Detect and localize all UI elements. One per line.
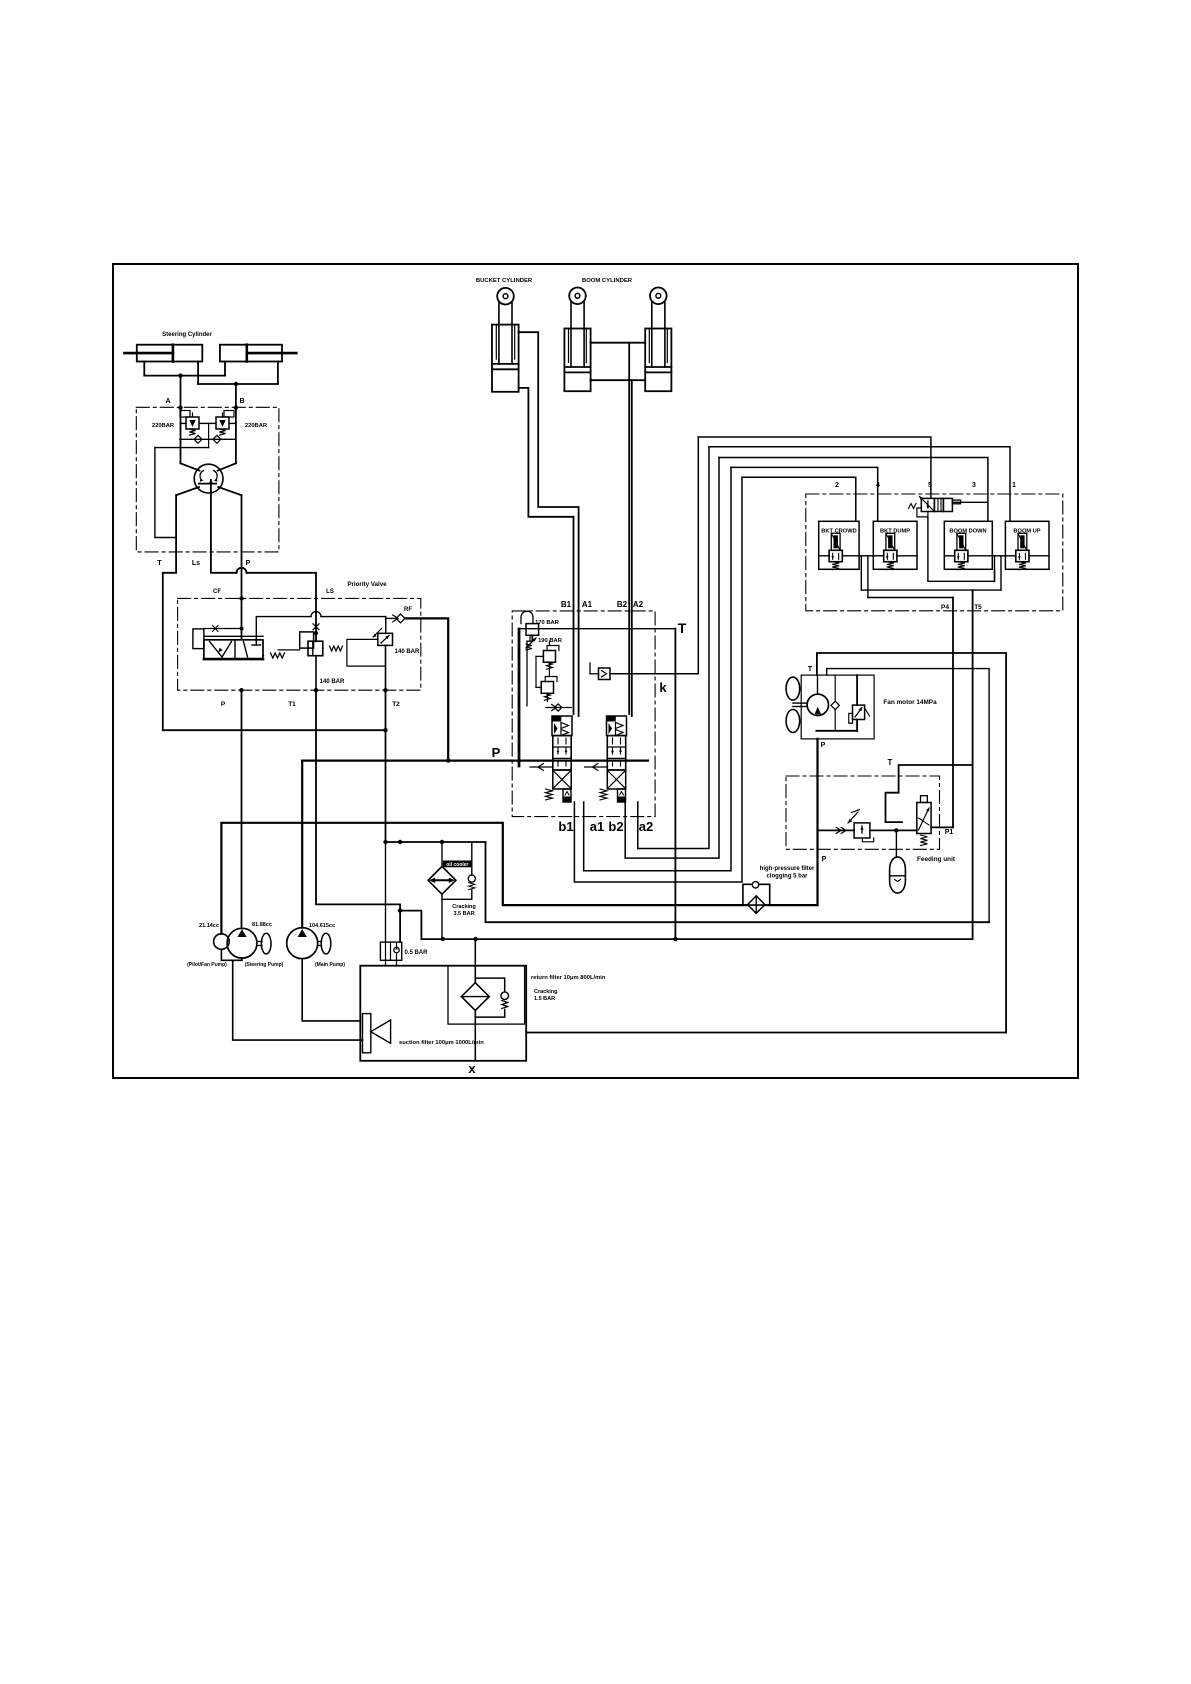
svg-text:a1: a1 — [590, 819, 604, 834]
label 190 BAR — [538, 638, 563, 644]
label cracking 3.5 — [452, 904, 476, 917]
svg-text:0.5 BAR: 0.5 BAR — [404, 950, 428, 956]
wire RF output — [405, 618, 448, 760]
priority valve spool body — [204, 636, 263, 659]
svg-text:Cracking: Cracking — [534, 989, 558, 995]
boom manifold base-side — [591, 379, 646, 381]
bucket cylinder body — [492, 325, 519, 392]
pressure reducing valve 5 — [909, 496, 961, 512]
priority pilot line — [204, 626, 244, 632]
hydraulic tank — [360, 966, 526, 1061]
svg-text:B: B — [239, 398, 244, 405]
wire pilot a1 — [584, 467, 731, 870]
cooler bypass check — [468, 842, 475, 899]
port label B2 — [617, 600, 628, 609]
wire cooler in — [441, 842, 443, 866]
port label Ls — [192, 560, 200, 567]
valve T gallery — [519, 628, 675, 630]
svg-text:b2: b2 — [608, 819, 623, 834]
svg-text:B2: B2 — [617, 600, 628, 609]
label CF — [213, 589, 221, 595]
port label P fan — [821, 742, 826, 749]
wire pump suction shared — [221, 949, 362, 1040]
junction dot accumulator — [894, 828, 898, 832]
junction dot T1 bottom — [314, 688, 318, 692]
fan motor circle — [807, 694, 828, 715]
boom cylinder left body — [564, 329, 590, 392]
wire T2 inside — [385, 645, 387, 690]
svg-text:a2: a2 — [639, 819, 653, 834]
high pressure filter — [743, 882, 770, 914]
junction dot collector b — [440, 840, 444, 844]
label return filter — [531, 975, 606, 981]
svg-text:1.5 BAR: 1.5 BAR — [534, 996, 555, 1002]
svg-text:190 BAR: 190 BAR — [538, 638, 563, 644]
boom cylinder left piston — [564, 367, 590, 372]
svg-text:T: T — [678, 620, 687, 636]
svg-text:81.88cc: 81.88cc — [252, 922, 272, 928]
junction dot rail tank — [473, 937, 477, 941]
node B label — [239, 398, 244, 405]
svg-text:220BAR: 220BAR — [152, 423, 175, 429]
label T main — [678, 620, 687, 636]
solenoid valve BKT DUMP — [873, 521, 917, 569]
main spool 1 (bucket) — [530, 716, 572, 802]
wire tank return right — [526, 1032, 1006, 1034]
svg-text:Cracking: Cracking — [452, 904, 476, 910]
wire feeding T — [886, 765, 973, 822]
svg-text:Ls: Ls — [192, 560, 200, 567]
port label P4 — [941, 604, 949, 611]
junction dot RF-P — [446, 758, 450, 762]
LS orifice — [313, 624, 319, 630]
wire LS tap drop — [155, 448, 176, 538]
relief pilot loop — [347, 639, 386, 666]
priority spool flow divider — [210, 642, 232, 658]
port label a1 — [590, 819, 604, 834]
svg-text:P: P — [492, 745, 501, 760]
main pressure line P — [302, 759, 648, 761]
port label T5 — [974, 604, 982, 611]
label 3 — [972, 482, 976, 489]
svg-text:B1: B1 — [561, 600, 572, 609]
pilot relief b 190bar — [543, 646, 559, 670]
label LS — [326, 589, 334, 595]
relief valve 140 bar body — [373, 629, 393, 646]
svg-text:A1: A1 — [582, 600, 593, 609]
fan motor outflow triangle — [815, 707, 822, 714]
boom manifold rod-side — [591, 343, 646, 381]
svg-text:104.615cc: 104.615cc — [309, 923, 335, 929]
port label B1 — [561, 600, 572, 609]
svg-text:A2: A2 — [633, 600, 644, 609]
label 4 — [876, 482, 880, 489]
return rail lower — [421, 938, 972, 940]
label Steering Cylinder — [162, 332, 212, 338]
feeding unit enclosure — [786, 776, 940, 849]
wire LS tap line — [155, 447, 209, 449]
pilot hop arc over LS — [311, 612, 321, 617]
steering cylinder right rod — [247, 352, 296, 355]
drawing border frame — [113, 264, 1078, 1078]
wire LS relief drop — [315, 656, 317, 691]
RF check valve — [386, 614, 405, 623]
wire accumulator drop — [895, 830, 897, 857]
svg-text:(Pilot/Fan Pump): (Pilot/Fan Pump) — [187, 962, 227, 968]
wire pilot supply — [221, 823, 747, 934]
wire P inside box — [241, 495, 243, 552]
check valve right diamond — [213, 435, 221, 443]
svg-text:P: P — [221, 701, 226, 708]
wire T2 drop — [385, 690, 387, 842]
fan motor enclosure — [801, 675, 874, 739]
wire crowd-dump gallery — [859, 555, 873, 557]
svg-text:P4: P4 — [941, 604, 949, 611]
junction dot T1-x — [398, 908, 402, 912]
port label b2 — [608, 819, 623, 834]
priority spool pilot box — [193, 629, 204, 649]
svg-text:(Main Pump): (Main Pump) — [315, 962, 345, 968]
check valve left diamond — [194, 435, 202, 443]
svg-text:P1: P1 — [945, 829, 954, 836]
bucket cylinder rod — [499, 303, 512, 364]
wire boom pair A2 — [631, 380, 633, 611]
motor relief valve — [849, 705, 870, 723]
rotor arrow right — [214, 471, 218, 482]
junction dot P bottom — [239, 688, 243, 692]
wire motor top — [817, 675, 819, 694]
boom cylinder right rod — [652, 302, 665, 367]
wire manifold v1 — [860, 556, 862, 590]
return bypass check — [475, 978, 508, 1017]
wire A to rotor — [181, 463, 200, 470]
label 140 BAR right — [395, 649, 420, 655]
label 220BAR left — [152, 423, 175, 429]
wire pilot a2 — [638, 447, 709, 849]
wire Ls inside box — [210, 493, 212, 552]
label RF — [404, 607, 412, 613]
label k — [659, 680, 667, 695]
accumulator — [890, 857, 906, 893]
pilot header line 3 — [719, 458, 988, 522]
wire Ls jog — [211, 552, 237, 573]
label pilot fan pump — [187, 962, 227, 968]
boom right rod guides — [649, 329, 667, 363]
wire k riser — [697, 437, 699, 674]
suction filter — [363, 1014, 391, 1053]
port label P feeding — [822, 856, 827, 863]
svg-text:3: 3 — [972, 482, 976, 489]
label steering pump — [245, 962, 284, 968]
svg-text:oil cooler: oil cooler — [446, 862, 468, 868]
svg-text:clogging 5 bar: clogging 5 bar — [766, 874, 808, 880]
valve internal channel lines — [527, 641, 543, 706]
wire fan P down — [816, 739, 818, 905]
wire manifold v2 — [867, 556, 869, 598]
wire P4 drop — [952, 598, 954, 828]
wire return filter bottom — [474, 1011, 476, 1061]
svg-text:RF: RF — [404, 607, 412, 613]
steering unit enclosure — [136, 407, 279, 552]
wire k line — [610, 673, 698, 675]
svg-text:140 BAR: 140 BAR — [320, 679, 345, 685]
port label a2 — [639, 819, 653, 834]
wire cooler out — [441, 899, 443, 939]
boom cylinder right piston — [645, 367, 671, 372]
valve internal left channel — [518, 629, 521, 766]
wire return drop — [474, 939, 476, 983]
steering pump — [227, 928, 271, 958]
wire manifold h597 — [868, 597, 953, 599]
svg-text:(Steering Pump): (Steering Pump) — [245, 962, 284, 968]
solenoid valve BOOM UP — [1005, 521, 1049, 569]
svg-text:Priority Valve: Priority Valve — [347, 581, 387, 588]
solenoid valve BKT CROWD — [819, 521, 859, 569]
main valve enclosure — [512, 611, 655, 817]
wire rod rail — [198, 383, 278, 385]
wire rotor to P diag — [218, 487, 241, 495]
relief valve right (220 bar) — [209, 411, 236, 436]
wire P pump riser steering — [241, 690, 243, 928]
wire bucket base port — [519, 388, 574, 611]
label P1 — [945, 829, 954, 836]
label 104.615cc — [309, 923, 335, 929]
anti-drift check k body — [590, 663, 610, 680]
label Feeding unit — [917, 856, 956, 863]
wire LS into box — [315, 612, 317, 642]
label main pump — [315, 962, 345, 968]
ls hop arc over P — [237, 568, 247, 573]
priority valve enclosure — [178, 598, 421, 690]
svg-text:Feeding unit: Feeding unit — [917, 856, 956, 863]
priority spool spring — [263, 653, 285, 658]
junction dot A at box — [178, 405, 182, 409]
boom cylinder left rod — [571, 302, 584, 367]
port label T1 — [288, 701, 296, 708]
wire T5 drop — [972, 590, 974, 939]
port label b1 — [558, 819, 573, 834]
wire pilot to relief — [321, 616, 386, 618]
label 21.14cc — [199, 923, 219, 929]
bucket rod guides — [496, 325, 514, 360]
wire relief mid drop — [208, 423, 210, 447]
svg-text:BOOM DOWN: BOOM DOWN — [949, 528, 986, 534]
port label P2 — [221, 701, 226, 708]
svg-text:T5: T5 — [974, 604, 982, 611]
label 140 BAR lower — [320, 679, 345, 685]
LS relief valve 140 bar — [278, 632, 342, 656]
wire Ls to LS port — [247, 573, 317, 612]
relief valve left (220 bar) — [180, 411, 209, 436]
pilot relief c — [541, 677, 557, 701]
wire P steering to CF — [241, 552, 243, 639]
boom cylinder left clevis — [569, 288, 586, 305]
pilot header line 5 — [698, 437, 931, 498]
motor relief risers — [856, 675, 858, 731]
wire B to rotor — [218, 463, 236, 470]
wire fan drain — [827, 669, 989, 923]
svg-text:P: P — [822, 856, 827, 863]
wire A drop — [180, 376, 182, 408]
wire T inside box — [175, 495, 177, 552]
boom cylinder right clevis — [650, 288, 667, 305]
svg-text:k: k — [659, 680, 667, 695]
fan blades — [786, 677, 800, 732]
label P main — [492, 745, 501, 760]
svg-text:4: 4 — [876, 482, 880, 489]
svg-text:Steering Cylinder: Steering Cylinder — [162, 332, 212, 338]
port label T — [157, 560, 162, 567]
wire fan T up — [817, 653, 1006, 1033]
label oil cooler — [443, 861, 472, 869]
svg-text:b1: b1 — [558, 819, 573, 834]
svg-text:suction filter 100μm 1000L/min: suction filter 100μm 1000L/min — [399, 1040, 484, 1046]
node A label — [165, 398, 170, 405]
fan shaft — [793, 703, 807, 706]
wire P1 out — [931, 826, 953, 828]
oil cooler diamond — [428, 866, 456, 894]
junction dot T2 rail — [383, 728, 387, 732]
wire valve5 drain — [917, 508, 928, 517]
svg-text:CF: CF — [213, 589, 221, 595]
wire T1 drop — [316, 690, 400, 942]
feeding solenoid valve — [917, 796, 931, 846]
wire main pump suction — [302, 959, 360, 1021]
boom cylinder right body — [645, 329, 671, 392]
wire valve5 out — [952, 501, 988, 503]
wire boom pair B2 — [628, 380, 630, 611]
wire filter out — [765, 904, 818, 906]
main spool 2 (boom) — [585, 716, 627, 802]
wire B drop — [235, 384, 237, 407]
svg-text:high-pressure filter: high-pressure filter — [760, 866, 815, 872]
label T feeding — [888, 758, 893, 767]
svg-text:x: x — [468, 1061, 476, 1076]
steering cylinder right piston — [246, 345, 249, 362]
svg-text:return filter 10μm 800L/min: return filter 10μm 800L/min — [531, 975, 606, 981]
junction dot A rail — [178, 373, 182, 377]
wire T1 to rail939 — [400, 911, 421, 940]
svg-text:1: 1 — [1012, 482, 1016, 489]
junction dot B at box — [234, 405, 238, 409]
junction dot CF — [239, 596, 243, 600]
svg-text:220BAR: 220BAR — [245, 423, 268, 429]
steering hand pump rotor — [194, 464, 223, 493]
bucket cylinder clevis — [497, 288, 514, 305]
pilot header line 4 — [731, 467, 878, 521]
anticavitation check line — [180, 438, 236, 440]
wire T jog — [163, 552, 176, 730]
wire T return rail — [163, 729, 386, 731]
check valve 0.5 bar — [380, 942, 401, 960]
wire pilot b2 — [625, 458, 719, 859]
label BUCKET CYLINDER — [476, 278, 533, 284]
wire cooler bottom node — [442, 894, 472, 899]
svg-text:T1: T1 — [288, 701, 296, 708]
port label T2 — [392, 701, 400, 708]
wire T drop — [674, 629, 676, 939]
port label A1 — [582, 600, 593, 609]
wire A1 into valve — [578, 611, 580, 716]
wire base rail — [144, 375, 225, 377]
rotor center pivot — [199, 479, 216, 493]
port label A2 — [633, 600, 644, 609]
svg-text:170 BAR: 170 BAR — [535, 620, 560, 626]
svg-text:BOOM CYLINDER: BOOM CYLINDER — [582, 278, 633, 284]
wire bucket rod-side port — [519, 332, 579, 611]
solenoid block enclosure — [806, 494, 1063, 611]
svg-text:P: P — [246, 560, 251, 567]
junction dot T2 bottom — [383, 688, 387, 692]
junction dot rail cooler — [441, 937, 445, 941]
steering cylinder right body — [220, 345, 282, 362]
wire rotor to T diag — [176, 487, 199, 495]
wire right cyl rod port down — [277, 362, 279, 385]
wire B1 into valve — [573, 611, 575, 714]
main pump — [287, 928, 331, 959]
label cracking 1.5 — [534, 989, 558, 1002]
label X — [468, 1061, 476, 1076]
wire feeding P gallery — [818, 827, 917, 833]
label BOOM CYLINDER — [582, 278, 633, 284]
label Priority Valve — [347, 581, 387, 588]
port label P — [246, 560, 251, 567]
wire A into box — [180, 407, 182, 463]
return filter sub-box — [448, 966, 525, 1024]
junction dot LS relief — [314, 631, 318, 635]
label high-pressure filter — [760, 866, 815, 880]
pilot header line 1 — [709, 447, 1010, 522]
svg-text:Fan motor 14MPa: Fan motor 14MPa — [883, 699, 937, 706]
port label T fan — [808, 666, 813, 673]
motor internal check — [831, 675, 839, 731]
steering cylinder left piston — [172, 345, 175, 362]
svg-text:T: T — [808, 666, 813, 673]
wire valve5 down — [928, 517, 995, 581]
wire manifold h590 — [861, 589, 1001, 591]
boom left rod guides — [569, 329, 587, 363]
label 220BAR right — [245, 423, 268, 429]
svg-text:T: T — [888, 758, 893, 767]
label 5 — [928, 482, 932, 489]
solenoid valve BOOM DOWN — [944, 521, 992, 569]
priority spool right section — [244, 641, 261, 657]
svg-text:140 BAR: 140 BAR — [395, 649, 420, 655]
valve check internal — [546, 704, 571, 711]
label 170 BAR — [535, 620, 560, 626]
valve internal relief chain — [530, 635, 549, 701]
wire manifold v4 — [1000, 556, 1002, 590]
label Fan motor — [883, 699, 937, 706]
motor bottom gallery — [816, 730, 857, 732]
wire main pump riser — [301, 761, 303, 928]
wire pilot b1 — [574, 477, 742, 882]
relief valve 170 bar — [521, 611, 539, 650]
label suction filter — [399, 1040, 484, 1046]
return rail upper — [486, 842, 990, 922]
wire right cyl base port down — [224, 362, 226, 376]
svg-text:2: 2 — [835, 482, 839, 489]
label 81.88cc — [252, 922, 272, 928]
rotor arrow left — [200, 471, 204, 482]
steering cylinder left body — [137, 345, 203, 362]
svg-text:A: A — [165, 398, 170, 405]
wire left cyl base port down — [143, 362, 145, 376]
wire 0.5bar to tank — [386, 960, 397, 965]
svg-text:3.5 BAR: 3.5 BAR — [453, 911, 474, 917]
wire manifold v3 — [994, 556, 996, 582]
svg-text:T: T — [157, 560, 162, 567]
